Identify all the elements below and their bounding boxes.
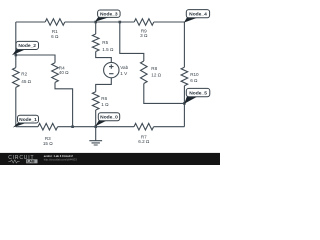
node Node_0	[95, 120, 106, 126]
svg-text:Node_4: Node_4	[189, 11, 207, 17]
wire Node_2 branch to R4	[16, 55, 55, 63]
node Node_5	[184, 96, 197, 104]
junction Node_5	[183, 102, 186, 105]
resistor R4	[52, 63, 59, 83]
wire top rail left segment	[16, 21, 45, 23]
wire top rail middle segment	[65, 21, 134, 23]
wire Vab to R6 jog	[96, 78, 112, 92]
junction Node_2	[15, 54, 18, 57]
svg-text:3 Ω: 3 Ω	[140, 33, 148, 38]
svg-text:LAB: LAB	[27, 160, 35, 164]
svg-text:15 Ω: 15 Ω	[43, 141, 53, 146]
svg-text:6.2 Ω: 6.2 Ω	[138, 139, 150, 144]
svg-text:Node_3: Node_3	[100, 11, 118, 17]
svg-text:ecofer : Lab 3 Circuit 2: ecofer : Lab 3 Circuit 2	[44, 154, 73, 158]
svg-text:45 Ω: 45 Ω	[21, 79, 31, 84]
resistor R10	[181, 67, 188, 86]
svg-text:6 Ω: 6 Ω	[51, 34, 59, 39]
svg-text:R2: R2	[21, 72, 27, 77]
resistor R8	[141, 61, 148, 84]
svg-text:40 Ω: 40 Ω	[59, 70, 69, 75]
wire right column upper	[183, 22, 185, 67]
node Node_2	[12, 49, 25, 55]
svg-text:R10: R10	[190, 72, 199, 77]
node Node_3	[95, 17, 109, 22]
svg-text:http://circuitlab.com/c644933: http://circuitlab.com/c644933	[44, 157, 78, 161]
wire R6 to Node_0	[95, 110, 97, 127]
svg-text:R8: R8	[151, 66, 157, 71]
svg-text:6 Ω: 6 Ω	[190, 78, 198, 83]
resistor R5	[92, 34, 99, 52]
wire bottom rail middle segment	[58, 126, 134, 128]
svg-text:Node_2: Node_2	[18, 43, 36, 49]
resistor R2	[13, 68, 20, 88]
svg-text:Node_1: Node_1	[19, 117, 37, 123]
svg-text:R6: R6	[101, 96, 107, 101]
wire R5 top lead	[95, 22, 97, 34]
junction Node_0	[94, 125, 97, 128]
wire right column lower	[183, 86, 185, 127]
voltage source Vab	[104, 62, 119, 77]
wire bottom rail right segment	[154, 126, 185, 128]
wire bottom rail left segment	[16, 126, 38, 128]
svg-text:R5: R5	[102, 40, 108, 45]
svg-text:Vab: Vab	[120, 65, 128, 70]
wire left column upper	[15, 22, 17, 68]
wire R5 to Vab jog	[96, 52, 112, 63]
resistor R9	[134, 19, 154, 26]
junction R8 branch on top rail	[119, 21, 122, 24]
svg-text:1.5 Ω: 1.5 Ω	[102, 47, 114, 52]
wire R8 to Node_5	[144, 84, 185, 104]
svg-text:Node_5: Node_5	[189, 90, 207, 96]
resistor R1	[45, 19, 65, 26]
ground	[89, 127, 102, 145]
wire top rail right segment	[154, 21, 185, 23]
footer bar	[0, 153, 220, 165]
wire R4 to bottom rail	[55, 82, 73, 126]
node Node_1	[13, 123, 26, 128]
svg-text:12 Ω: 12 Ω	[151, 73, 161, 78]
junction Node_3 on top rail	[94, 21, 97, 24]
svg-text:1 Ω: 1 Ω	[101, 102, 109, 107]
resistor R3	[38, 123, 58, 130]
wire R8 branch from top rail	[120, 22, 144, 61]
wire left column lower	[15, 87, 17, 126]
junction R4 branch on bottom rail	[71, 125, 74, 128]
resistor R6	[92, 92, 99, 110]
resistor R7	[134, 123, 154, 130]
svg-text:Node_0: Node_0	[100, 115, 118, 121]
node Node_4	[184, 17, 198, 22]
svg-text:1 V: 1 V	[120, 71, 128, 76]
